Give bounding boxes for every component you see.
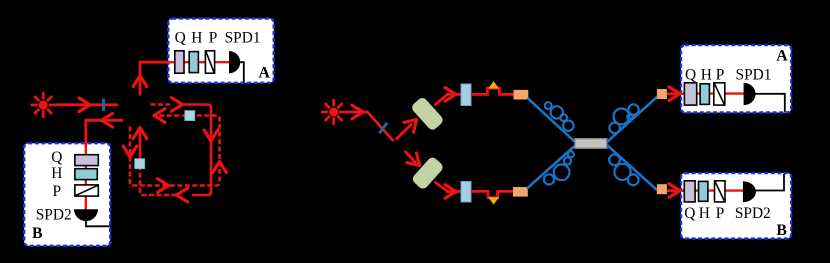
wire: loop1 top dashed <box>151 103 171 106</box>
svg-text:H: H <box>191 30 202 47</box>
half-wave plate H (box B b) <box>699 181 708 201</box>
arrow loop2 left (down) <box>123 146 137 157</box>
wire: SPD2 output (b) <box>753 174 785 191</box>
svg-text:H: H <box>701 67 712 84</box>
detector SPD2 (box B b) <box>743 181 756 202</box>
wire: upper line to coupler <box>498 93 514 96</box>
svg-text:A: A <box>259 64 271 81</box>
svg-text:Q: Q <box>51 149 62 166</box>
wire: SPD1 output <box>239 62 244 82</box>
wire: red beam to box B (b) <box>667 189 678 192</box>
svg-text:Q: Q <box>175 30 186 47</box>
polarizer P (box A b) <box>714 83 725 105</box>
wire: red beam crossing border into box B (a) <box>85 141 88 147</box>
arrow on pump beam (b) <box>352 105 363 119</box>
detector SPD1 (box A b) <box>744 83 756 105</box>
svg-text:P: P <box>53 183 62 200</box>
wire: pump beam from laser to BS <box>55 103 118 106</box>
laser source star (b) <box>321 99 347 125</box>
svg-text:H: H <box>51 165 62 182</box>
fiber coil lower-right <box>609 154 639 185</box>
wire: phase bump upper <box>487 88 499 95</box>
detector box B (panel b) <box>681 173 791 239</box>
fiber: lower-left <box>527 146 575 189</box>
wire: beam to upper crystal <box>396 124 412 140</box>
quarter-wave plate Q (box B) <box>75 155 98 166</box>
arrow pointing left toward box B <box>102 114 113 128</box>
filter (blue rect) upper <box>461 84 471 106</box>
arrow loop1 left (up into BS) <box>133 128 147 139</box>
arrow upper arm <box>445 88 456 102</box>
wire: pump beam (b) <box>345 111 368 114</box>
polarizer P (box B b) <box>715 181 726 202</box>
Sagnac loop counter-clockwise dashed path <box>130 116 220 186</box>
arrow into lower crystal <box>407 153 424 170</box>
wave plate square on loop top edge <box>185 111 195 121</box>
wire: red beam to box A (b) <box>667 92 678 95</box>
svg-text:P: P <box>209 30 218 47</box>
wire: loop1 bottom dashed <box>140 169 177 195</box>
arrow into upper crystal <box>404 115 421 132</box>
fiber: upper-left <box>528 98 575 142</box>
detector SPD2 (box B) <box>74 209 98 221</box>
fiber coil lower-left <box>544 151 574 184</box>
nonlinear crystal upper <box>410 96 445 132</box>
fiber coil upper-left <box>545 102 574 131</box>
piezo triangle lower <box>488 197 499 204</box>
arrow loop1 top (right) <box>172 98 183 112</box>
fiber coupler upper-right (orange) <box>657 89 667 99</box>
svg-text:P: P <box>716 205 725 222</box>
filter (blue rect) lower <box>461 182 471 203</box>
half-wave plate tick on pump beam <box>102 99 105 112</box>
arrow loop2 bottom (right) <box>158 179 169 193</box>
detector box B (panel a) <box>24 143 110 246</box>
wire: red beam inside box A <box>169 61 229 63</box>
arrow into box B (b) <box>669 184 680 198</box>
half-wave plate H (box A) <box>189 52 198 73</box>
quarter-wave plate Q (box A) <box>175 51 184 73</box>
fiber: lower-right <box>607 145 658 191</box>
fiber coupler lower-right (orange) <box>657 184 667 194</box>
detector SPD1 (box A) <box>229 51 240 73</box>
arrow into box A (b) <box>669 87 680 101</box>
svg-text:Q: Q <box>684 205 695 222</box>
svg-text:Q: Q <box>685 67 696 84</box>
wire: upper line to phase bump <box>471 93 489 96</box>
wire: SPD2 output <box>86 221 111 227</box>
fiber coupler lower-left (orange) <box>513 187 528 197</box>
wire: BS up to detector box A <box>140 62 229 95</box>
fiber: upper-right <box>607 97 658 143</box>
svg-text:SPD1: SPD1 <box>225 30 261 47</box>
wire: red beam inside box B <box>85 144 87 210</box>
svg-text:SPD2: SPD2 <box>36 206 72 223</box>
wire: loop1 top solid <box>179 105 211 196</box>
arrow on pump beam <box>79 98 90 112</box>
fiber coupler upper-left (orange) <box>514 90 529 100</box>
half-wave plate H (box A b) <box>700 84 709 105</box>
half-wave plate tick on diagonal beam <box>379 123 387 133</box>
svg-text:B: B <box>776 222 787 239</box>
arrow loop1 bottom (left) <box>177 188 188 202</box>
fiber beam splitter (gray) <box>575 139 607 149</box>
svg-text:SPD2: SPD2 <box>735 205 771 222</box>
wire: BS left then down to detector box B <box>86 120 123 209</box>
wire: red beam inside box B (b) <box>682 189 745 191</box>
wire: beam to lower crystal <box>405 151 417 163</box>
wire: red beam inside box A (b) <box>682 92 745 94</box>
wire: loop2 left+bottom+right+top dashed <box>130 116 220 186</box>
quarter-wave plate Q (box B b) <box>684 181 695 202</box>
detector box A (panel a) <box>168 19 273 83</box>
arrow up toward box A <box>133 76 147 87</box>
wire: lower line to phase bump <box>471 190 489 193</box>
wire: red beam crossing border into box A (b) <box>678 92 684 95</box>
svg-text:P: P <box>716 67 725 84</box>
arrow loop1 right (down) <box>204 130 218 141</box>
polarizer P (box B) <box>75 185 98 196</box>
wire: red beam crossing border into box A (a) <box>167 61 172 64</box>
wire: lower line to coupler <box>497 190 515 193</box>
wire: phase bump lower <box>488 190 498 197</box>
wire: upper horizontal to filter <box>446 93 462 96</box>
wire: SPD1 output (b) <box>754 94 785 112</box>
piezo triangle upper <box>488 81 499 88</box>
polarizer P (box A) <box>205 51 214 73</box>
nonlinear crystal lower <box>411 156 445 191</box>
wire: upper crystal output diagonal <box>435 94 448 105</box>
svg-text:SPD1: SPD1 <box>736 67 772 84</box>
arrow loop2 top (left into BS) <box>154 109 165 123</box>
wire: red beam crossing border into box B (b) <box>678 189 684 192</box>
detector box A (panel b) <box>681 45 791 112</box>
arrow loop2 right (up) <box>213 162 227 173</box>
wire: loop1 left solid <box>139 128 142 159</box>
arrow lower arm <box>445 185 456 199</box>
quarter-wave plate Q (box A b) <box>684 83 696 105</box>
svg-text:H: H <box>699 205 710 222</box>
Sagnac loop clockwise path (solid/dashed mix) <box>140 105 211 196</box>
svg-text:B: B <box>32 225 43 242</box>
fiber coil upper-right <box>609 104 638 133</box>
wire: diagonal pump beam down to splitter <box>367 111 394 141</box>
svg-text:A: A <box>776 48 788 65</box>
wire: lower crystal output diagonal <box>435 182 449 192</box>
wire: lower horizontal to filter <box>446 190 462 193</box>
laser source star (a) <box>31 92 57 118</box>
wave plate square on loop left edge <box>135 159 145 169</box>
half-wave plate H (box B) <box>75 169 97 180</box>
